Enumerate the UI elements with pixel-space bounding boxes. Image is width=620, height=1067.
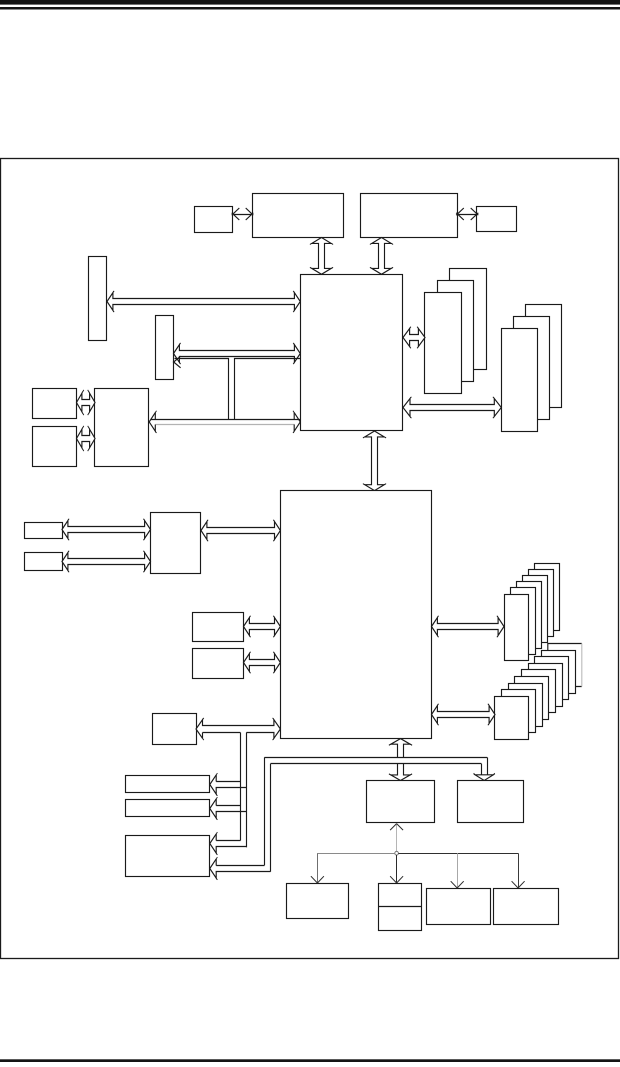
box Q [427, 889, 491, 925]
slot lower 6 [509, 684, 543, 727]
slot card far-right 3 [502, 329, 538, 432]
arrowhead into box N [475, 775, 493, 781]
box O (floppy) [287, 884, 349, 919]
thin link box M down [396, 824, 398, 853]
arrowhead up into box M [390, 824, 397, 831]
slot card upper-right 3 [425, 293, 462, 394]
top header thin rule [0, 7, 620, 10]
arrow small-upper to medium [77, 393, 96, 412]
box left small lower [33, 427, 77, 467]
bus pipe vertical D [270, 764, 272, 872]
bus pipe vertical C [264, 757, 266, 865]
arrow southbridge to box M [391, 739, 410, 781]
box IDE upper [193, 613, 244, 642]
arrow CPU1 to northbridge [312, 238, 331, 275]
slot lower 1 [542, 651, 576, 694]
box far-left upper small [25, 523, 63, 539]
DIMM slot upper 3 [523, 576, 548, 643]
drop to box R [518, 853, 520, 887]
box CPU2 wide [361, 194, 458, 238]
bottom footer rule [0, 1059, 620, 1062]
arrow far-left-upper to LAN ctrl [62, 521, 151, 539]
box super-IO [126, 836, 210, 877]
block arrow into serial2 box [210, 799, 247, 818]
slot card upper-right 1 [450, 269, 487, 370]
arrow IDE-lower to southbridge [244, 654, 281, 672]
north bridge (big upper box) [301, 275, 403, 431]
box strip serial2 [126, 800, 210, 817]
drop to box P [396, 855, 398, 882]
top header thick rule [0, 0, 620, 5]
drop to box O [317, 853, 319, 882]
rect slot A under bus [175, 359, 229, 420]
tall box mid (slot) [156, 316, 174, 380]
slot lower 3 [529, 664, 563, 707]
arrow northbridge to southbridge [365, 431, 384, 491]
long gray bus arrow medium box to northbridge [151, 419, 301, 421]
rect slot B under bus [235, 359, 301, 420]
slot lower 4 [522, 670, 556, 713]
slot lower 5 [515, 677, 549, 720]
long arrow northbridge to far-right stack [403, 399, 501, 417]
DIMM slot upper 6 [505, 595, 529, 661]
box strip serial1 [126, 776, 210, 793]
stack of 9 slots right lower [548, 644, 582, 687]
box BIOS [153, 714, 197, 745]
slot lower 2 [535, 657, 569, 700]
bus pipe horizontal to box N [271, 758, 483, 763]
bus pipe vertical A (LPC left) [240, 733, 242, 841]
arrow southbridge to slot stack lower [432, 706, 496, 724]
box P (kb/mouse) [379, 884, 422, 931]
tall box left (VRM) [89, 257, 107, 341]
bus pipe vertical B (LPC right) [246, 733, 248, 848]
box R [494, 889, 559, 925]
box N [458, 781, 524, 823]
arrow southbridge to DIMM stack upper [432, 618, 505, 636]
DIMM slot upper 1 [535, 564, 560, 631]
box right small [477, 207, 517, 232]
box IDE lower [193, 649, 244, 679]
long bus arrow northbridge to tall-left box [107, 293, 300, 311]
drop to box Q [457, 853, 459, 887]
slot card far-right 1 [526, 305, 562, 408]
block arrow into super-IO lower [210, 859, 271, 878]
box CPU1 wide [253, 194, 344, 238]
junction node circle [395, 851, 399, 855]
DIMM slot upper 2 [529, 570, 554, 637]
slot lower 8 [495, 697, 529, 740]
arrow CPU2 to small-right [459, 214, 477, 216]
arrow CPU2 to northbridge [372, 238, 391, 275]
slot card far-right 2 [514, 317, 550, 420]
DIMM slot upper 5 [511, 588, 536, 655]
box clock-gen left small [195, 207, 233, 233]
box left mid (LAN ctrl) [151, 513, 201, 574]
long bus arrow tall-mid to northbridge [174, 345, 301, 363]
slot card upper-right 2 [438, 281, 474, 382]
box M (ACPI ctrl) [367, 781, 435, 823]
arrow LAN ctrl to southbridge [201, 522, 280, 540]
arrow small-left to CPU1 [234, 214, 251, 216]
box left medium (FW hub) [95, 389, 149, 467]
box P divider [378, 906, 422, 908]
block arrow into super-IO upper [210, 834, 247, 853]
south bridge (big lower box) [281, 491, 432, 739]
arrow northbridge to upper-right stack [403, 329, 425, 347]
DIMM slot upper 4 [517, 582, 542, 649]
tree horizontal right [398, 853, 518, 855]
slot lower 7 [502, 690, 536, 733]
arrow BIOS to southbridge (LPC) [196, 720, 280, 760]
box left small upper [33, 389, 77, 419]
arrow IDE-upper to southbridge [244, 618, 281, 636]
block arrow into serial1 box [210, 775, 247, 794]
diagram border frame [1, 159, 619, 959]
extra arrowhead at tall-mid box [173, 356, 181, 362]
tree horizontal left [317, 853, 394, 855]
arrow far-left-lower to LAN ctrl [62, 553, 151, 571]
arrow small-lower to medium [77, 429, 96, 448]
box far-left lower small [25, 553, 63, 571]
